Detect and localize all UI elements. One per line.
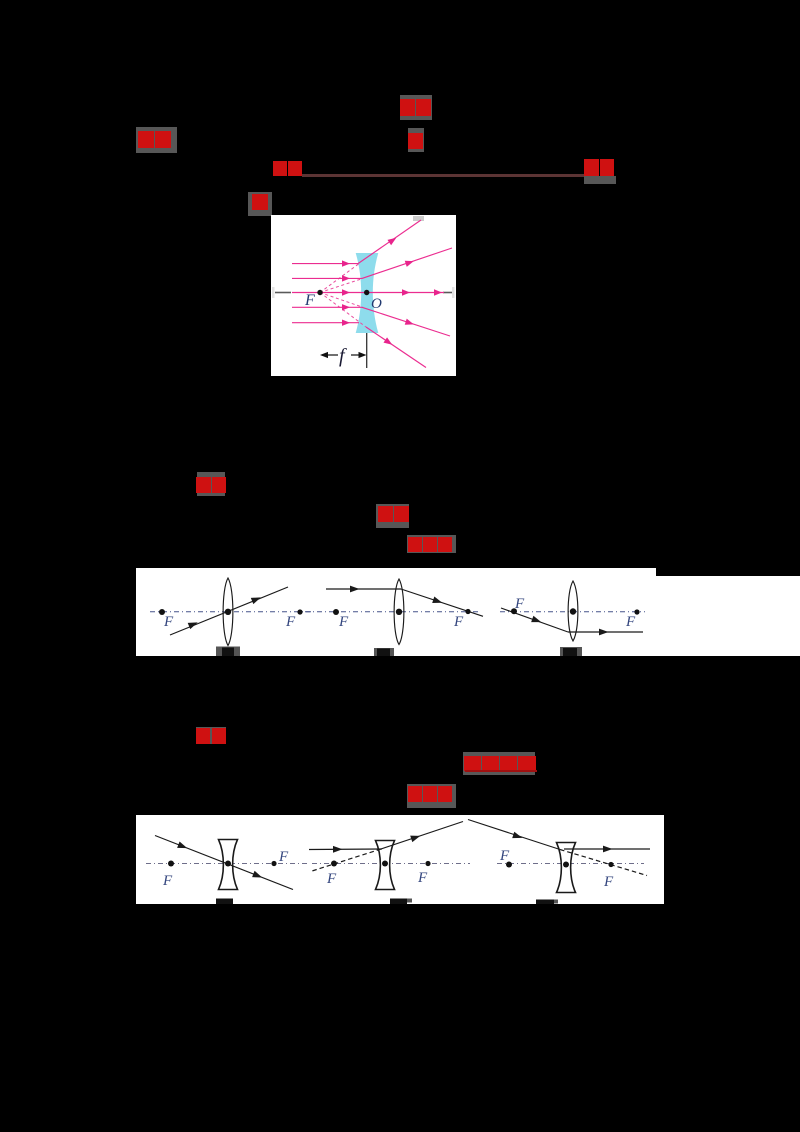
svg-text:O: O bbox=[371, 296, 382, 312]
svg-text:F: F bbox=[514, 596, 525, 612]
svg-text:F: F bbox=[163, 614, 174, 630]
svg-text:f: f bbox=[339, 345, 347, 367]
svg-text:F: F bbox=[162, 873, 173, 889]
svg-text:F: F bbox=[499, 848, 510, 864]
svg-text:F: F bbox=[417, 870, 428, 886]
svg-text:F: F bbox=[625, 614, 636, 630]
svg-text:F: F bbox=[338, 614, 349, 630]
svg-text:F: F bbox=[285, 614, 296, 630]
svg-text:F: F bbox=[278, 849, 289, 865]
svg-text:F: F bbox=[304, 292, 315, 309]
svg-text:F: F bbox=[326, 871, 337, 887]
svg-text:F: F bbox=[603, 874, 614, 890]
svg-text:F: F bbox=[453, 614, 464, 630]
